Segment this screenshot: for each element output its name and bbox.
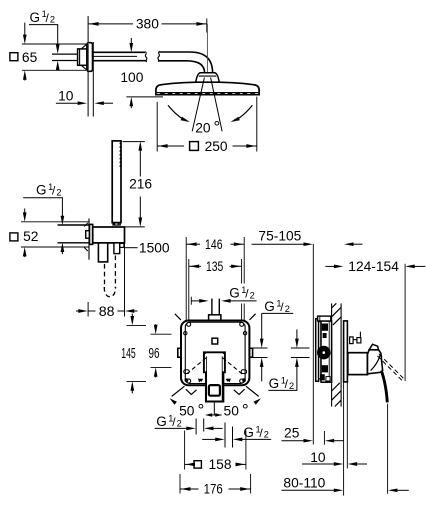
svg-text:2: 2 — [177, 419, 182, 429]
ext line 124-154 right — [404, 264, 406, 381]
arm flange escutcheon — [87, 43, 93, 72]
svg-text:2: 2 — [289, 381, 294, 391]
box centre square — [212, 338, 218, 344]
arm break symbol — [145, 52, 147, 62]
angle leader right — [246, 386, 259, 396]
handle crease — [371, 355, 381, 370]
port ext pair box side — [251, 347, 268, 349]
svg-text:50: 50 — [224, 403, 240, 418]
holder wall plate — [90, 224, 93, 244]
dim sq158 ext lines — [184, 431, 186, 470]
supply stub pipe — [52, 53, 78, 55]
svg-text:250: 250 — [205, 139, 228, 154]
leader G1/2 side port upper — [262, 313, 294, 339]
side ext line left — [312, 244, 314, 445]
angle arc arrowheads right — [226, 379, 231, 382]
holder hose stub — [98, 243, 107, 262]
valve mid plate — [319, 322, 321, 379]
svg-text:2: 2 — [56, 187, 61, 197]
swivel arc arrow left — [168, 105, 187, 121]
svg-text:2: 2 — [50, 14, 55, 24]
dim 96 ext lines — [151, 333, 172, 335]
svg-text:G: G — [264, 299, 275, 314]
dim sq52 arrows — [24, 209, 26, 214]
wall line B — [92, 42, 94, 117]
leader G1/2 hand shower — [23, 198, 62, 217]
svg-text:380: 380 — [136, 17, 159, 32]
wall hatching top — [332, 303, 337, 308]
label sq65 — [10, 53, 18, 61]
svg-text:65: 65 — [22, 50, 38, 65]
svg-text:2: 2 — [285, 304, 290, 314]
dim 124-154 — [325, 265, 334, 267]
svg-text:52: 52 — [23, 229, 38, 244]
dim 216 ext lines — [123, 141, 145, 143]
box outer body — [181, 321, 249, 386]
svg-text:176: 176 — [204, 482, 223, 497]
svg-text:50: 50 — [179, 403, 195, 418]
box bottom screw dots — [185, 379, 188, 382]
leader G1/2 bottom right — [202, 438, 216, 440]
svg-text:75-105: 75-105 — [258, 229, 301, 244]
head shower body — [156, 82, 259, 94]
box inner wall — [185, 322, 245, 383]
box side notches — [184, 332, 187, 335]
svg-text:1500: 1500 — [139, 240, 170, 255]
svg-text:145: 145 — [121, 346, 136, 362]
angle arc arrowheads left — [198, 379, 203, 382]
swivel fan line left — [192, 78, 204, 132]
head pivot centreline — [206, 24, 208, 74]
svg-text:146: 146 — [205, 237, 223, 252]
stem centreline stub — [213, 402, 215, 416]
box corner screws — [187, 322, 191, 326]
valve top boss — [318, 316, 331, 321]
dim 135 — [189, 265, 201, 267]
port axis dashed right — [223, 358, 243, 374]
handle lever head — [368, 350, 383, 374]
svg-text:124-154: 124-154 — [348, 259, 399, 274]
trim plate ext lines — [343, 382, 345, 496]
leader G1/2 box top — [230, 300, 256, 302]
svg-text:10: 10 — [310, 450, 326, 465]
box top corner ticks — [175, 314, 181, 320]
head shower hub — [196, 73, 220, 83]
handle lever head cap — [369, 344, 378, 350]
dim 176 ext lines — [179, 474, 181, 494]
hand shower wall line — [88, 219, 90, 260]
leader G1/2 bottom left — [155, 427, 187, 429]
stick spray dots — [119, 143, 121, 169]
box side port right — [249, 348, 252, 357]
svg-text:G: G — [269, 376, 280, 391]
angle chevron left — [186, 389, 197, 394]
svg-text:216: 216 — [129, 177, 152, 192]
port ext ticks — [195, 419, 197, 435]
stick end cap — [113, 223, 120, 226]
dim 100 ext line — [126, 96, 162, 98]
valve knob — [318, 346, 330, 358]
trim plate — [344, 321, 348, 382]
dim 216 — [138, 141, 142, 150]
arm bend to head — [159, 52, 212, 73]
leader G1/2 side port lower — [296, 329, 298, 339]
dim sq250 ext lines — [156, 102, 158, 152]
connector chamfer ticks — [84, 223, 88, 227]
head nozzles — [160, 93, 255, 95]
svg-text:100: 100 — [120, 70, 143, 85]
swivel arc arrow right — [234, 105, 253, 121]
dim sq65 arrows — [24, 23, 26, 36]
dim 146 — [186, 243, 200, 245]
svg-text:G: G — [156, 414, 167, 429]
dim 145 arrows — [131, 314, 133, 317]
shower arm tube — [93, 51, 145, 53]
valve body — [321, 321, 332, 382]
angle leader left — [172, 386, 185, 396]
union nut — [78, 49, 87, 65]
box side port left — [178, 348, 181, 357]
handle lever tail — [382, 372, 388, 403]
dim 135 ext lines — [188, 259, 190, 320]
holder cone stub — [114, 243, 120, 254]
cartridge stem — [204, 352, 225, 401]
box pipe boss — [209, 315, 221, 321]
dim 100 — [130, 38, 132, 43]
svg-text:96: 96 — [149, 346, 160, 362]
dim 380 — [88, 23, 133, 25]
svg-text:80-110: 80-110 — [283, 475, 325, 490]
dim sq52 ext lines — [21, 221, 89, 223]
svg-text:2: 2 — [250, 290, 255, 300]
svg-text:135: 135 — [206, 259, 224, 274]
svg-text:°: ° — [197, 400, 204, 419]
dim sq65 ext lines — [22, 43, 86, 45]
dim 145 ext lines — [127, 324, 147, 326]
svg-text:G: G — [243, 425, 254, 440]
wall hatching bottom — [332, 383, 340, 391]
port axis dashed left — [186, 358, 206, 374]
dim sq158 — [185, 463, 189, 465]
leader G1/2 arm — [29, 25, 58, 48]
under-stem arrows — [207, 414, 222, 416]
svg-text:10: 10 — [58, 88, 74, 103]
svg-text:25: 25 — [284, 425, 300, 440]
svg-text:158: 158 — [208, 457, 231, 472]
dim 146 ext lines — [185, 237, 187, 320]
svg-text:2: 2 — [264, 430, 269, 440]
valve dark details — [322, 324, 328, 331]
dim 96 arrows — [155, 324, 157, 325]
swivel fan line right — [211, 78, 223, 132]
box supply pipe — [211, 299, 213, 315]
hand shower stick — [112, 141, 121, 223]
svg-text:88: 88 — [99, 304, 115, 320]
handle swing dashed — [379, 354, 405, 380]
dim 88 ext lines — [87, 302, 89, 317]
dim 176 — [180, 488, 199, 490]
wall line A — [87, 16, 89, 117]
dim sq250 — [157, 145, 184, 147]
svg-text:°: ° — [242, 400, 249, 419]
nut chamfer ticks — [82, 45, 87, 49]
valve rear housing — [316, 319, 319, 381]
port ext pair valve side — [291, 347, 310, 349]
label sq52 — [10, 233, 18, 241]
ext line handle tip — [387, 404, 389, 494]
svg-text:G: G — [229, 286, 240, 301]
svg-text:20: 20 — [195, 120, 211, 135]
svg-text:G: G — [30, 10, 41, 25]
arrow under arm pipe — [56, 61, 60, 70]
svg-text:G: G — [36, 183, 47, 198]
head face line — [157, 92, 259, 94]
stem square hole — [209, 385, 220, 396]
svg-text:°: ° — [213, 117, 220, 136]
hose dashed — [104, 264, 106, 288]
hand shower connector — [86, 231, 90, 239]
screw glyph — [359, 332, 361, 340]
handle hub — [348, 353, 368, 375]
dim 88 — [76, 310, 79, 312]
holder body — [93, 227, 125, 243]
dim 10 wall — [56, 102, 78, 104]
hand shower supply pipe — [58, 224, 90, 226]
wall lines — [331, 303, 333, 406]
angle chevron right — [234, 389, 245, 394]
box lower tabs — [184, 370, 189, 374]
leader 1500 — [124, 247, 138, 249]
